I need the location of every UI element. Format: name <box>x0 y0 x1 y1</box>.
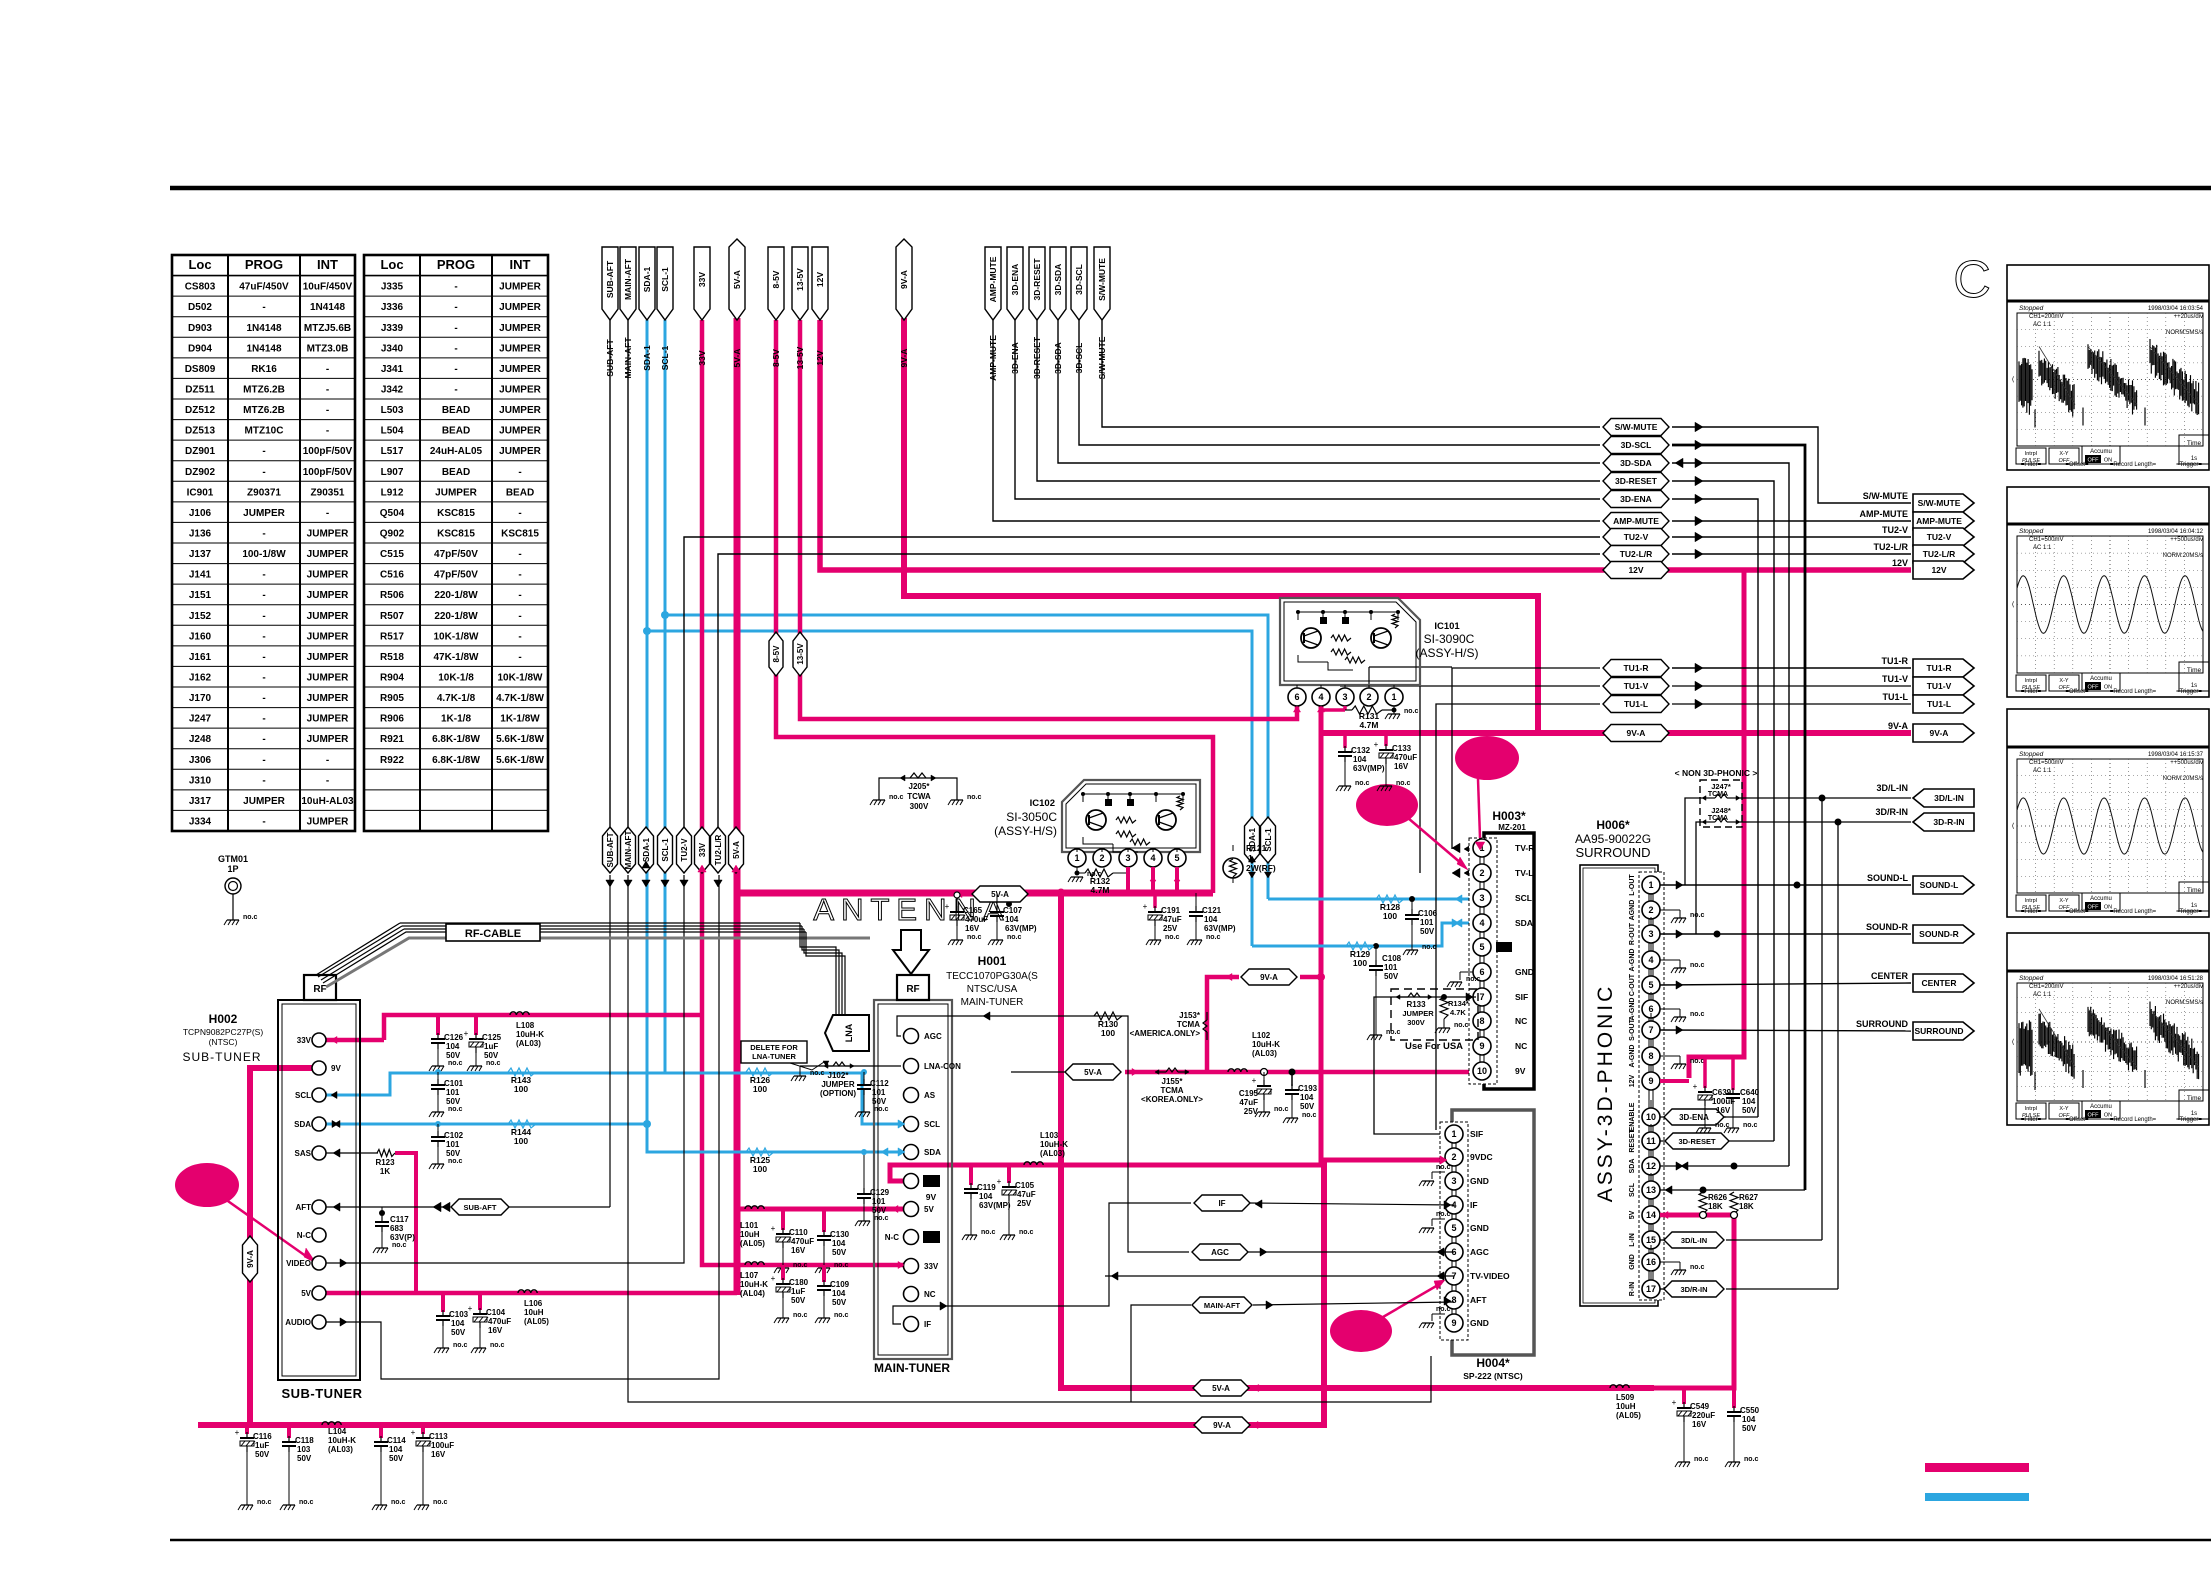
wire H006 SDA line <box>1660 1165 1789 1167</box>
svg-text:MTZ6.2B: MTZ6.2B <box>243 385 285 396</box>
svg-text:C121: C121 <box>1202 906 1222 915</box>
table parts list 1 <box>172 255 355 831</box>
flag SCL-1 (mid) <box>658 827 673 873</box>
svg-text:IC901: IC901 <box>187 487 214 498</box>
svg-text:-: - <box>262 775 265 786</box>
border top rule <box>170 186 2211 191</box>
capacitor C639 100uF 16V <box>1703 1057 1707 1088</box>
svg-text:J137: J137 <box>189 549 212 560</box>
capacitor C132 104 63V(MP) <box>1343 733 1347 748</box>
flag MAIN-AFT (top) <box>620 247 636 320</box>
ground H004 pin5 <box>1432 1218 1445 1220</box>
flag 8-5V (top) <box>768 247 784 320</box>
flag SUB-AFT (top) <box>602 247 618 320</box>
svg-text:TV-L: TV-L <box>1515 868 1533 878</box>
svg-text:JUMPER: JUMPER <box>435 487 477 498</box>
svg-text:4.7M: 4.7M <box>1091 885 1110 895</box>
svg-text:TU2-V: TU2-V <box>1927 532 1952 542</box>
svg-text:H002: H002 <box>209 1012 238 1026</box>
capacitor C125 1uF 50V <box>474 1015 478 1035</box>
svg-text:+: + <box>1693 1082 1698 1091</box>
legend pink bar <box>1925 1463 2029 1472</box>
wire RF-CABLE drop to LNA <box>800 923 836 1018</box>
wire AMP-MUTE route <box>993 320 1600 521</box>
node label AMP-MUTE <box>1603 513 1669 530</box>
svg-text:100uF: 100uF <box>431 1441 454 1450</box>
svg-text:16V: 16V <box>1692 1420 1707 1429</box>
svg-text:JUMPER: JUMPER <box>499 405 541 416</box>
svg-text:-: - <box>518 570 521 581</box>
svg-text:J306: J306 <box>189 755 212 766</box>
svg-text:63V(P): 63V(P) <box>390 1233 415 1242</box>
svg-text:JUMPER: JUMPER <box>307 549 349 560</box>
arrow ellipse2 to TV-L <box>1408 818 1462 864</box>
svg-text:TV-VIDEO: TV-VIDEO <box>1470 1271 1510 1281</box>
svg-text:TU2-L/R: TU2-L/R <box>714 834 723 865</box>
svg-text:TU2-L/R: TU2-L/R <box>1874 542 1909 552</box>
node label TU1-L <box>1603 696 1669 713</box>
svg-text:J152: J152 <box>189 611 212 622</box>
wire SDA rail <box>326 1123 647 1126</box>
svg-text:R517: R517 <box>380 631 404 642</box>
svg-text:JUMPER: JUMPER <box>307 734 349 745</box>
wire H003 pin bus <box>1479 843 1481 1076</box>
wire 33V to sub-tuner pin <box>326 1038 384 1043</box>
svg-text:50V: 50V <box>872 1097 887 1106</box>
capacitor C104 470uF 16V <box>478 1293 482 1310</box>
svg-text:J336: J336 <box>381 302 404 313</box>
flag 3D-SDA (top) <box>1050 247 1066 320</box>
svg-text:no.c: no.c <box>1355 780 1369 787</box>
svg-text:Z90371: Z90371 <box>247 487 281 498</box>
svg-text:TCWA: TCWA <box>907 792 931 801</box>
svg-text:J161: J161 <box>189 652 212 663</box>
wire 12V branch to H006 <box>1689 570 1744 1078</box>
svg-text:10uH-K: 10uH-K <box>1040 1140 1068 1149</box>
pin H004-1 SIF <box>1445 1125 1463 1143</box>
svg-text:R123: R123 <box>375 1158 395 1167</box>
svg-text:12V: 12V <box>815 350 825 365</box>
svg-text:no.c: no.c <box>889 794 903 801</box>
svg-text:J248*: J248* <box>1711 806 1731 815</box>
node label IF <box>1194 1195 1250 1211</box>
resistor R144 100 <box>508 1120 536 1128</box>
pin H006-14 5V <box>1642 1206 1660 1224</box>
node C195 junction <box>1261 1069 1268 1076</box>
flag 13-5V (top) <box>792 247 808 320</box>
pin H004-3 GND <box>1445 1172 1463 1190</box>
flag 8-5V (mid) <box>769 632 783 676</box>
svg-text:no.c: no.c <box>1466 976 1480 983</box>
wire 3D-ENA route <box>1015 320 1600 499</box>
pin H006-10 ENABLE <box>1642 1108 1660 1126</box>
jumper J247 <box>1702 797 1715 799</box>
svg-text:C125: C125 <box>482 1033 502 1042</box>
wire TU2-V to edge <box>1672 536 1911 538</box>
inductor L101 <box>745 1206 751 1209</box>
node R627 top <box>1731 1163 1738 1170</box>
ground H004 pin3 <box>1432 1171 1445 1173</box>
node L-OUT junction <box>1794 882 1801 889</box>
svg-text:9: 9 <box>1479 1041 1484 1051</box>
svg-text:SOUND-R: SOUND-R <box>1919 929 1959 939</box>
svg-text:OFF: OFF <box>2088 1113 2100 1119</box>
svg-text:H006*: H006* <box>1596 818 1630 832</box>
wire 3D-RESET route <box>1037 320 1600 481</box>
svg-text:D903: D903 <box>188 323 212 334</box>
arrow sub AUDIO <box>340 1318 347 1326</box>
svg-text:GND: GND <box>1470 1176 1489 1186</box>
svg-text:TU1-R: TU1-R <box>1882 656 1909 666</box>
svg-text:104: 104 <box>451 1319 465 1328</box>
svg-text:A-GND: A-GND <box>1629 949 1636 972</box>
svg-text:-: - <box>262 529 265 540</box>
node R626 top <box>1700 1187 1707 1194</box>
svg-text:16: 16 <box>1646 1257 1656 1267</box>
wire C117 stub <box>381 1207 383 1218</box>
wire AMP-MUTE to edge <box>1672 520 1911 522</box>
arrow SUB-AFT hex arrow <box>433 1202 441 1212</box>
svg-text:220-1/8W: 220-1/8W <box>434 590 478 601</box>
wire 9V-A hexagon link <box>1207 977 1239 1070</box>
svg-text:Loc: Loc <box>380 257 403 272</box>
svg-text:2: 2 <box>1451 1152 1456 1162</box>
inductor L102 <box>1228 1069 1234 1072</box>
wire H006 SCL line <box>1660 1189 1805 1191</box>
svg-text:JUMPER: JUMPER <box>307 673 349 684</box>
svg-text:<KOREA.ONLY>: <KOREA.ONLY> <box>1141 1095 1203 1104</box>
wire TU1-L full <box>1436 704 1600 1130</box>
svg-text:no.c: no.c <box>793 1262 807 1269</box>
svg-text:L912: L912 <box>381 487 404 498</box>
svg-text:47pF/50V: 47pF/50V <box>434 549 478 560</box>
pin H001 SCL <box>904 1117 919 1132</box>
svg-text:IntrpI: IntrpI <box>2025 451 2038 457</box>
svg-text:JUMPER: JUMPER <box>499 385 541 396</box>
svg-text:10uF/450V: 10uF/450V <box>303 282 353 293</box>
svg-text:RESET: RESET <box>1629 1129 1636 1153</box>
svg-text:SUB-TUNER: SUB-TUNER <box>281 1386 362 1401</box>
svg-text:33V: 33V <box>297 1036 312 1045</box>
node 3D/R-IN junction <box>1835 819 1842 826</box>
svg-text:4.7K: 4.7K <box>1450 1008 1466 1017</box>
node label 3D-SDA <box>1603 455 1669 472</box>
svg-text:3D/L-IN: 3D/L-IN <box>1934 793 1964 803</box>
svg-text:MAIN-AFT: MAIN-AFT <box>1204 1301 1241 1310</box>
svg-text:101: 101 <box>872 1197 886 1206</box>
svg-text:OFF: OFF <box>2088 905 2100 911</box>
wire 3D/L-IN down <box>1821 798 1823 1240</box>
svg-text:-: - <box>326 508 329 519</box>
svg-text:100pF/50V: 100pF/50V <box>303 446 353 457</box>
svg-text:C549: C549 <box>1690 1402 1710 1411</box>
svg-text:100: 100 <box>753 1084 767 1094</box>
pin H006-9 12V <box>1642 1072 1660 1090</box>
port TU1-L (right edge) <box>1913 695 1974 713</box>
wire IC102 pin3 stub <box>1126 867 1130 893</box>
node label 9V-A right <box>1603 725 1669 742</box>
svg-text:C108: C108 <box>1382 954 1402 963</box>
svg-text:R906: R906 <box>380 714 404 725</box>
pin H002 SCL <box>312 1088 326 1102</box>
wire H006 ENABLE <box>1660 1116 1726 1118</box>
pin IC101-3 <box>1336 688 1354 706</box>
svg-text:(NTSC): (NTSC) <box>209 1037 238 1047</box>
svg-text:J162: J162 <box>189 673 212 684</box>
svg-text:L103: L103 <box>1040 1131 1059 1140</box>
svg-text:=Trigger=: =Trigger= <box>2176 909 2202 915</box>
svg-text:no.c: no.c <box>1206 934 1220 941</box>
resistor R626 18K <box>1699 1192 1707 1214</box>
resistor R131 4.7M <box>1345 709 1352 711</box>
svg-text:-: - <box>262 734 265 745</box>
svg-text:SCL-1: SCL-1 <box>660 267 670 292</box>
svg-text:4: 4 <box>1648 955 1653 965</box>
svg-text:33V: 33V <box>697 272 707 287</box>
wire 9V-A rail y733 <box>1321 730 1911 736</box>
svg-text:101: 101 <box>446 1088 460 1097</box>
svg-text:50V: 50V <box>1300 1102 1315 1111</box>
svg-text:++500us/div: ++500us/div <box>2170 537 2203 543</box>
svg-text:MTZ10C: MTZ10C <box>245 426 284 437</box>
svg-text:C515: C515 <box>380 549 404 560</box>
label RF-CABLE box <box>446 924 540 941</box>
svg-text:50V: 50V <box>791 1296 806 1305</box>
svg-text:JUMPER: JUMPER <box>307 590 349 601</box>
wire SCL-1 vertical <box>664 320 667 1072</box>
legend blue bar <box>1925 1493 2029 1501</box>
svg-text:SCL-1: SCL-1 <box>661 838 670 862</box>
pin H006-11 RESET <box>1642 1132 1660 1150</box>
svg-text:-: - <box>326 755 329 766</box>
wire SAS pink vertical <box>395 1153 416 1293</box>
scope panel 3 <box>2007 709 2209 917</box>
svg-text:5V: 5V <box>924 1205 934 1214</box>
svg-text:SOUND-R: SOUND-R <box>1866 922 1908 932</box>
svg-text:C133: C133 <box>1392 744 1412 753</box>
svg-text:+: + <box>411 1428 416 1437</box>
box Use For USA dashed <box>1391 989 1478 1040</box>
svg-text:63V(MP): 63V(MP) <box>979 1201 1011 1210</box>
wire SAS line <box>326 1152 378 1154</box>
port 9V-A (right edge) <box>1913 724 1974 742</box>
svg-text:J141: J141 <box>189 570 212 581</box>
svg-text:OFF: OFF <box>2088 458 2100 464</box>
port TU1-V (right edge) <box>1913 677 1974 695</box>
svg-text:SURROUND: SURROUND <box>1575 845 1650 860</box>
svg-text:220uF: 220uF <box>1692 1411 1715 1420</box>
svg-text:no.c: no.c <box>1436 1164 1450 1171</box>
node 3D/L-IN junction <box>1819 795 1826 802</box>
svg-text:9V-A: 9V-A <box>246 1250 255 1268</box>
svg-text:no.c: no.c <box>967 934 981 941</box>
svg-text:(AL04): (AL04) <box>740 1289 765 1298</box>
svg-text:5V: 5V <box>301 1289 311 1298</box>
svg-text:8: 8 <box>1479 1016 1484 1026</box>
svg-text:R-OUT: R-OUT <box>1629 922 1636 945</box>
svg-text:IntrpI: IntrpI <box>2025 898 2038 904</box>
wire 9V-A sub-tuner rail <box>250 1068 326 1425</box>
svg-text:=Filter=: =Filter= <box>2021 689 2042 695</box>
svg-text:5: 5 <box>1174 853 1179 863</box>
arrow H003 SDA <box>1455 919 1462 927</box>
svg-text:MTZ3.0B: MTZ3.0B <box>307 343 349 354</box>
wire RF-CABLE bundle <box>316 923 400 975</box>
svg-text:10uH-AL03: 10uH-AL03 <box>301 796 354 807</box>
svg-text:NORM:20MS/s: NORM:20MS/s <box>2163 776 2203 782</box>
svg-text:NORM:20MS/s: NORM:20MS/s <box>2163 553 2203 559</box>
wire 33V vertical+elbow <box>702 320 912 1265</box>
svg-text:BEAD: BEAD <box>442 405 470 416</box>
svg-text:R134*: R134* <box>1448 999 1469 1008</box>
svg-text:TU1-R: TU1-R <box>1926 663 1951 673</box>
flag 5V-A (mid) <box>729 827 744 873</box>
pin H001 33V <box>904 1259 919 1274</box>
svg-text:101: 101 <box>872 1088 886 1097</box>
svg-text:AA95-90022G: AA95-90022G <box>1575 832 1651 846</box>
svg-text:C130: C130 <box>830 1230 850 1239</box>
svg-text:CS803: CS803 <box>185 282 216 293</box>
wire IF to H004 <box>1250 1203 1454 1205</box>
svg-text:3D-RESET: 3D-RESET <box>1678 1137 1716 1146</box>
wire 5V sub-tuner rail <box>326 1291 737 1296</box>
box non-3d-phonic dashed <box>1700 780 1742 827</box>
svg-text:no.c: no.c <box>433 1499 447 1506</box>
wire 5V-A H003 rail <box>1125 1070 1476 1075</box>
wire TV-VIDEO line <box>1105 1275 1454 1277</box>
scope panel 1 <box>2007 265 2209 470</box>
svg-text:(ASSY-H/S): (ASSY-H/S) <box>994 824 1057 838</box>
svg-text:no.c: no.c <box>1690 962 1704 969</box>
arrow ellipse3 to TV-VIDEO <box>1383 1285 1438 1317</box>
flag 12V (top) <box>812 247 828 320</box>
svg-text:NC: NC <box>1515 1041 1527 1051</box>
wire AUDIO line <box>326 875 719 1379</box>
svg-text:10uH: 10uH <box>524 1308 544 1317</box>
highlight ellipse 4 <box>175 1163 239 1207</box>
svg-text:IC101: IC101 <box>1434 621 1460 632</box>
capacitor C193 104 50V <box>1291 1072 1293 1086</box>
ground H006 pin6 <box>1660 1008 1680 1010</box>
node label 9V-A bottom <box>1194 1417 1250 1433</box>
wire TU1-R right <box>1672 667 1911 669</box>
svg-text:(AL05): (AL05) <box>524 1317 549 1326</box>
svg-text:AS: AS <box>924 1091 936 1100</box>
svg-text:47uF/450V: 47uF/450V <box>239 282 289 293</box>
svg-text:SDA: SDA <box>1515 918 1533 928</box>
svg-text:AMP-MUTE: AMP-MUTE <box>1613 516 1659 526</box>
ground J102 <box>799 1066 801 1076</box>
svg-text:BEAD: BEAD <box>506 487 534 498</box>
pin H002 SAS <box>312 1146 326 1160</box>
pin H001 IF <box>904 1317 919 1332</box>
wire SDA-1 branch to IC101 area <box>647 631 1252 946</box>
svg-text:R121: R121 <box>1246 843 1267 853</box>
pin H004-7 TV-VIDEO <box>1445 1267 1463 1285</box>
svg-text:-: - <box>262 467 265 478</box>
svg-text:(ASSY-H/S): (ASSY-H/S) <box>1416 646 1479 660</box>
svg-text:C-OUT: C-OUT <box>1629 973 1636 996</box>
wire TU1-R full <box>1452 668 1600 849</box>
ground H006 pin4 <box>1660 959 1680 961</box>
svg-text:JUMPER: JUMPER <box>499 323 541 334</box>
svg-text:⟨: ⟨ <box>2012 822 2015 830</box>
svg-text:C102: C102 <box>444 1131 464 1140</box>
svg-text:NTSC/USA: NTSC/USA <box>967 984 1018 995</box>
scope panel 2 <box>2007 487 2209 697</box>
svg-text:JUMPER: JUMPER <box>499 282 541 293</box>
svg-text:4: 4 <box>1150 853 1155 863</box>
svg-text:JUMPER: JUMPER <box>243 508 285 519</box>
svg-text:C118: C118 <box>295 1436 314 1445</box>
svg-text:VIDEO: VIDEO <box>286 1259 311 1268</box>
svg-text:KSC815: KSC815 <box>437 529 475 540</box>
node C117 junction <box>379 1210 385 1216</box>
svg-text:+: + <box>235 1428 240 1437</box>
svg-text:100: 100 <box>1383 911 1397 921</box>
port CENTER (right edge) <box>1913 974 1974 992</box>
svg-text:1: 1 <box>1648 880 1653 890</box>
node C112 junction <box>861 1069 867 1075</box>
svg-text:6: 6 <box>1294 692 1299 702</box>
svg-text:+: + <box>468 1304 473 1313</box>
svg-text:no.c: no.c <box>874 1106 888 1113</box>
svg-text:L101: L101 <box>740 1221 759 1230</box>
strip H004 pins dashed <box>1440 1122 1468 1340</box>
wire 3D/R-IN down <box>1837 822 1839 1289</box>
pin H002 33V <box>312 1033 326 1047</box>
pin IC102-4 <box>1144 849 1162 867</box>
svg-text:1998/03/04 16:04:12: 1998/03/04 16:04:12 <box>2148 529 2204 535</box>
wire 3D-ENA down <box>1672 499 1758 1117</box>
pin H001 N-C <box>904 1230 919 1245</box>
ground H006 pin8 <box>1660 1055 1680 1057</box>
svg-text:SCL: SCL <box>1629 1182 1636 1197</box>
svg-text:8-5V: 8-5V <box>771 349 781 367</box>
arrow IC101 pin6 <box>1293 706 1300 712</box>
svg-text:9V: 9V <box>1515 1066 1526 1076</box>
svg-text:R-IN: R-IN <box>1629 1282 1636 1296</box>
svg-text:1998/03/04 16:51:28: 1998/03/04 16:51:28 <box>2148 976 2204 982</box>
pin H006-13 SCL <box>1642 1181 1660 1199</box>
wire IC102 pin5 stub <box>1175 867 1179 893</box>
svg-text:J335: J335 <box>381 282 404 293</box>
wire TU1-V full <box>1420 686 1600 873</box>
svg-text:10K-1/8W: 10K-1/8W <box>433 631 479 642</box>
inductor L509 <box>1610 1385 1616 1388</box>
wire H006 R-OUT <box>1660 933 1911 935</box>
svg-text:DS809: DS809 <box>185 364 216 375</box>
svg-text:50V: 50V <box>389 1454 404 1463</box>
svg-text:CH1=500mV: CH1=500mV <box>2029 760 2064 766</box>
svg-text:no.c: no.c <box>1436 1211 1450 1218</box>
svg-text:AGC: AGC <box>1470 1247 1489 1257</box>
capacitor C109 104 50V <box>822 1265 826 1282</box>
svg-text:8-5V: 8-5V <box>771 270 781 288</box>
svg-text:TU2-V: TU2-V <box>680 838 689 862</box>
svg-text:BEAD: BEAD <box>442 467 470 478</box>
svg-text:TCMA: TCMA <box>1708 791 1728 798</box>
pin H002 VIDEO <box>312 1256 326 1270</box>
strip H003 pins dashed <box>1469 838 1497 1084</box>
svg-text:SUB-TUNER: SUB-TUNER <box>182 1050 261 1064</box>
svg-text:+: + <box>464 1029 469 1038</box>
svg-text:L104: L104 <box>328 1427 347 1436</box>
wire TU2-L/R route <box>718 554 1600 827</box>
svg-text:PROG: PROG <box>437 257 475 272</box>
svg-text:1998/03/04 16:15:37: 1998/03/04 16:15:37 <box>2148 752 2204 758</box>
svg-text:220-1/8W: 220-1/8W <box>434 611 478 622</box>
